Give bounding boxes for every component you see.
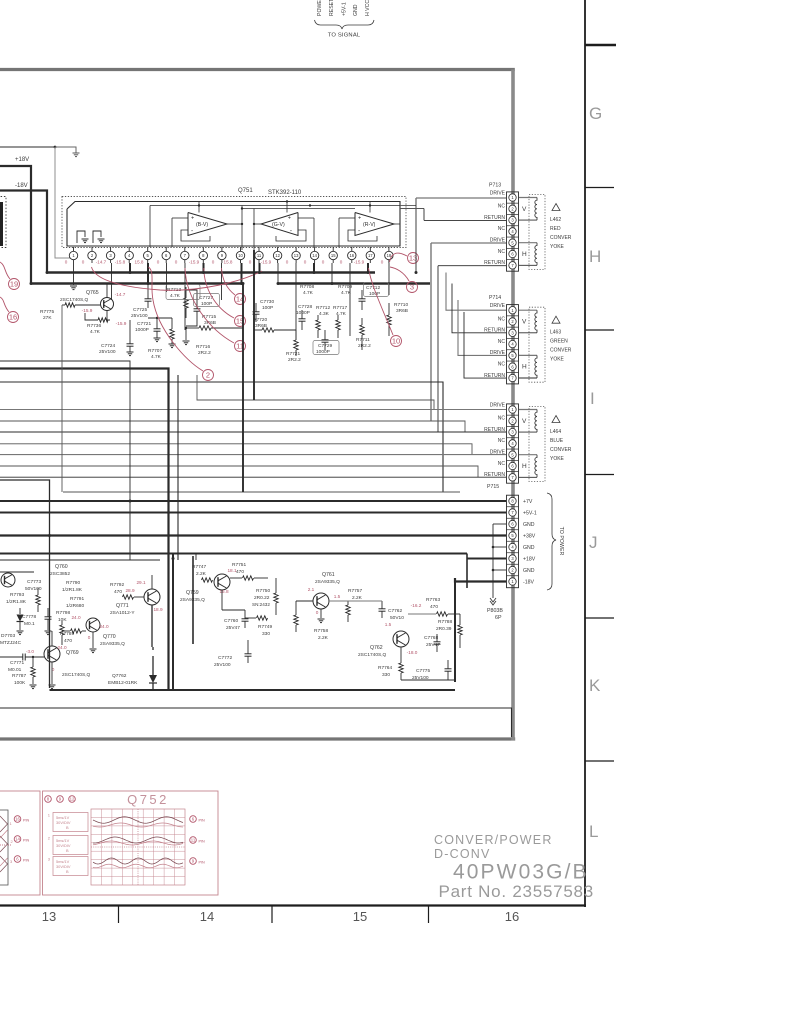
pin 16 of Q751 bbox=[351, 247, 353, 251]
svg-text:0: 0 bbox=[340, 260, 343, 265]
wire C7768 bbox=[436, 634, 438, 642]
svg-text:CONVER/POWER: CONVER/POWER bbox=[434, 833, 553, 847]
svg-text:R7763: R7763 bbox=[426, 597, 440, 603]
ground R7707 bbox=[169, 343, 176, 345]
wire thick drop left bbox=[0, 369, 169, 691]
wire mesh F bbox=[0, 361, 130, 560]
red ref 2 bbox=[203, 370, 214, 381]
wire R7717 bbox=[337, 315, 339, 320]
wire R7787 bbox=[32, 657, 34, 667]
svg-text:24.0: 24.0 bbox=[57, 645, 67, 650]
svg-text:DRIVE: DRIVE bbox=[490, 238, 506, 244]
wire B-V supply bbox=[198, 202, 200, 213]
wire R7713 bbox=[185, 287, 187, 298]
pin 18 of Q751 bbox=[388, 247, 390, 251]
svg-text:+5V-1: +5V-1 bbox=[523, 511, 537, 517]
svg-text:V: V bbox=[522, 206, 527, 213]
svg-text:24.0: 24.0 bbox=[99, 624, 109, 629]
wire C7729 bbox=[324, 330, 326, 340]
svg-text:GND: GND bbox=[523, 568, 535, 574]
wire R7764 bbox=[400, 647, 402, 663]
wire gray pin1 feed bbox=[55, 147, 70, 258]
connector P714 body bbox=[507, 305, 519, 384]
wire R7721 bbox=[295, 330, 297, 340]
wire mesh B bbox=[0, 421, 465, 432]
wire R-V supply bbox=[369, 202, 371, 213]
margin vertical line bbox=[584, 0, 586, 907]
svg-text:NC: NC bbox=[498, 226, 506, 232]
red curve 13 bbox=[390, 253, 408, 262]
margin tick bbox=[585, 187, 614, 189]
wire mesh C bbox=[0, 444, 472, 455]
wire base R7775 bbox=[62, 304, 65, 306]
wire corner left low bbox=[0, 480, 50, 688]
node bbox=[369, 204, 371, 206]
pin 17 of Q751 bbox=[369, 247, 371, 251]
wire +18V bbox=[0, 553, 467, 555]
wire mesh D bbox=[0, 466, 478, 477]
wire gnd chain bbox=[493, 523, 506, 525]
wire vertical x178 bbox=[177, 375, 179, 560]
wire vertical x173 bbox=[172, 553, 174, 690]
svg-text:R7720: R7720 bbox=[253, 317, 267, 323]
P713 pin 6 bbox=[507, 259, 519, 261]
bottom margin tick bbox=[428, 906, 430, 924]
red ref 19 bbox=[9, 279, 20, 290]
internal bias stub 1 bbox=[77, 231, 85, 243]
wire C7724 bbox=[129, 320, 131, 344]
wire pin6 drop bbox=[166, 263, 168, 292]
P715 pin 4 bbox=[507, 448, 519, 450]
power pin 3 +18V bbox=[507, 563, 519, 565]
svg-text:Q760: Q760 bbox=[55, 564, 68, 570]
svg-text:16: 16 bbox=[15, 817, 20, 822]
wire C7772 bbox=[247, 640, 249, 654]
wire vertical x467 bbox=[466, 554, 468, 589]
callout box C7729 bbox=[313, 341, 339, 355]
svg-text:14: 14 bbox=[200, 909, 214, 924]
svg-text:2.2K: 2.2K bbox=[318, 635, 329, 641]
svg-text:13: 13 bbox=[42, 909, 56, 924]
wire R7749 bbox=[245, 617, 256, 619]
svg-text:R7749: R7749 bbox=[258, 624, 272, 630]
svg-text:PIN: PIN bbox=[23, 819, 29, 823]
svg-text:2R0.22: 2R0.22 bbox=[254, 595, 270, 601]
wire vertical x62 bbox=[61, 305, 63, 492]
svg-text:Q765: Q765 bbox=[86, 290, 99, 296]
svg-text:-: - bbox=[191, 228, 193, 235]
transistor Q771 bbox=[144, 589, 160, 605]
svg-text:M0.1: M0.1 bbox=[24, 621, 35, 627]
wire P714 drive V bbox=[446, 273, 506, 311]
P715 pin 2 bbox=[507, 425, 519, 427]
svg-text:CONVER: CONVER bbox=[550, 447, 572, 453]
svg-text:H: H bbox=[522, 251, 527, 258]
svg-text:12: 12 bbox=[70, 797, 75, 802]
wire pin18 drop bbox=[388, 263, 390, 295]
wire emitter bbox=[107, 311, 110, 321]
svg-text:25V100: 25V100 bbox=[214, 662, 231, 668]
svg-text:24.0: 24.0 bbox=[71, 615, 81, 620]
waveform box Q752 outline bbox=[43, 791, 219, 895]
waveform trace 2 dark bbox=[93, 837, 183, 843]
power pin 6 GND bbox=[507, 529, 519, 531]
svg-text:-15.8: -15.8 bbox=[115, 260, 126, 265]
svg-text:P715: P715 bbox=[487, 484, 499, 490]
svg-text:YOKE: YOKE bbox=[550, 244, 565, 250]
red circled 12 bbox=[69, 796, 76, 803]
svg-text:3: 3 bbox=[410, 283, 414, 292]
red curve long pin2 bbox=[92, 267, 263, 290]
wire C7727 top bbox=[186, 290, 197, 309]
pin 1 of Q751 bbox=[73, 247, 75, 251]
wire return red H bbox=[437, 266, 439, 432]
P713 pin 2 bbox=[507, 213, 519, 215]
wire +38V bbox=[0, 534, 506, 536]
wire G-V plus input bbox=[298, 217, 314, 219]
svg-text:C7724: C7724 bbox=[101, 343, 115, 349]
svg-text:R7775: R7775 bbox=[40, 309, 54, 315]
svg-text:+: + bbox=[191, 216, 194, 222]
svg-text:R7708: R7708 bbox=[300, 284, 314, 290]
svg-text:2.1: 2.1 bbox=[308, 587, 315, 592]
margin tick bbox=[585, 760, 614, 762]
svg-text:NC: NC bbox=[498, 316, 506, 322]
svg-text:C7778: C7778 bbox=[22, 614, 36, 620]
wire P715 drive H bbox=[0, 454, 506, 456]
connector P715 body bbox=[507, 404, 519, 483]
svg-text:0: 0 bbox=[322, 260, 325, 265]
P713 pin 3 bbox=[507, 225, 519, 227]
pin ref 6 bbox=[190, 816, 197, 823]
IC Q751 body outline bbox=[67, 202, 400, 247]
wire pin9 drop bbox=[221, 263, 223, 300]
svg-text:2SC1740S,Q: 2SC1740S,Q bbox=[62, 672, 91, 678]
svg-text:2SA1012-Y: 2SA1012-Y bbox=[110, 610, 135, 616]
svg-text:R7793: R7793 bbox=[10, 592, 24, 598]
bottom margin tick bbox=[271, 906, 273, 924]
bottom margin line bbox=[0, 904, 586, 906]
P714 pin 1 bbox=[507, 315, 519, 317]
ground Q770 bbox=[90, 648, 97, 650]
svg-text:0: 0 bbox=[65, 260, 68, 265]
svg-text:4.7K: 4.7K bbox=[90, 329, 101, 335]
wire R7707 bbox=[171, 318, 173, 329]
svg-text:Q770: Q770 bbox=[103, 634, 116, 640]
svg-text:2R0.39: 2R0.39 bbox=[436, 626, 452, 632]
waveform box left outline bbox=[0, 791, 40, 895]
wire pin15 drop bbox=[331, 263, 333, 284]
wire R7715 bbox=[186, 327, 199, 329]
wire vertical x193 bbox=[192, 556, 194, 644]
H coil bbox=[519, 242, 537, 244]
svg-text:L462: L462 bbox=[550, 217, 561, 223]
svg-text:R7747: R7747 bbox=[192, 564, 206, 570]
svg-text:K: K bbox=[589, 676, 601, 695]
internal rail 2 bbox=[242, 208, 355, 210]
svg-text:C7771: C7771 bbox=[10, 660, 24, 666]
svg-text:100K: 100K bbox=[14, 680, 26, 686]
wire P715 return V bbox=[0, 431, 506, 433]
yoke dashed box P715 bbox=[529, 407, 545, 482]
brace TO SIGNAL bbox=[315, 20, 375, 29]
svg-text:NC: NC bbox=[498, 461, 506, 467]
svg-text:+38V: +38V bbox=[523, 534, 536, 540]
red ref 16 bbox=[8, 312, 19, 323]
P713 pin 1 bbox=[507, 202, 519, 204]
svg-text:L: L bbox=[589, 822, 598, 841]
wire R7763 bbox=[408, 613, 436, 615]
scope setting box 1 bbox=[53, 813, 88, 832]
svg-text:V: V bbox=[522, 418, 527, 425]
svg-text:M0.01: M0.01 bbox=[8, 667, 22, 673]
ground internal 1 bbox=[82, 238, 89, 240]
svg-text:3R6B: 3R6B bbox=[255, 323, 267, 329]
svg-text:2.2K: 2.2K bbox=[196, 571, 207, 577]
P715 pin 1 bbox=[507, 414, 519, 416]
P714 pin 7 bbox=[509, 374, 516, 381]
wire R-V output bbox=[394, 223, 400, 225]
junction node bbox=[54, 146, 57, 149]
wire x155 joins x168 bbox=[152, 647, 154, 650]
svg-text:4.7K: 4.7K bbox=[170, 293, 181, 299]
op-amp U1b (G-V) bbox=[261, 213, 298, 236]
svg-text:-15.9: -15.9 bbox=[189, 260, 200, 265]
P713 pin 4 bbox=[507, 236, 519, 238]
svg-text:3R6B: 3R6B bbox=[204, 320, 216, 326]
svg-text:PIN: PIN bbox=[199, 840, 205, 844]
svg-text:P803B: P803B bbox=[487, 608, 503, 614]
transistor Q769 bbox=[44, 646, 60, 662]
svg-text:15.8: 15.8 bbox=[224, 260, 233, 265]
svg-text:2R2.2: 2R2.2 bbox=[358, 343, 371, 349]
pin 2 of Q751 bbox=[91, 247, 93, 251]
svg-text:GREEN: GREEN bbox=[550, 339, 568, 345]
svg-text:30V/DIV: 30V/DIV bbox=[56, 843, 71, 848]
node output bbox=[253, 223, 255, 225]
svg-text:+18V: +18V bbox=[15, 157, 29, 163]
pin 7 of Q751 bbox=[184, 247, 186, 251]
wire C7778 bbox=[47, 608, 49, 617]
svg-text:1000P: 1000P bbox=[316, 349, 330, 355]
svg-text:POWER-ON: POWER-ON bbox=[317, 0, 323, 16]
wire pin3 drop bbox=[111, 263, 113, 300]
svg-text:Q762: Q762 bbox=[370, 645, 383, 651]
wire vertical x254 bbox=[253, 250, 255, 400]
svg-text:4.3K: 4.3K bbox=[319, 311, 330, 317]
svg-text:470: 470 bbox=[114, 589, 122, 595]
svg-text:B: B bbox=[66, 848, 69, 853]
svg-text:R7758: R7758 bbox=[314, 628, 328, 634]
svg-text:1/2R1.8K: 1/2R1.8K bbox=[6, 599, 27, 605]
power pin 1 -18V bbox=[509, 578, 516, 585]
wire C7771 bbox=[0, 656, 23, 658]
svg-text:D7703: D7703 bbox=[1, 633, 15, 639]
svg-text:330: 330 bbox=[382, 672, 390, 678]
wire Q761 base bbox=[296, 600, 313, 602]
svg-text:1000P: 1000P bbox=[135, 327, 149, 333]
svg-text:0: 0 bbox=[212, 260, 215, 265]
wire pin1 to ground bbox=[73, 263, 75, 285]
wire Q759 emitter bbox=[221, 590, 223, 610]
svg-text:17: 17 bbox=[368, 253, 373, 258]
svg-text:+5V-1: +5V-1 bbox=[342, 2, 348, 16]
wire R7751 bbox=[230, 577, 242, 579]
pin 9 of Q751 bbox=[221, 247, 223, 251]
wire -18V rail bbox=[0, 191, 47, 273]
svg-text:11: 11 bbox=[191, 838, 196, 843]
P715 pin 6 bbox=[507, 471, 519, 473]
svg-text:Q752: Q752 bbox=[127, 792, 169, 807]
ground internal 2 bbox=[98, 238, 105, 240]
IC Q751 dashed outline bbox=[62, 197, 406, 248]
svg-text:-15.9: -15.9 bbox=[82, 308, 93, 313]
svg-text:R7717: R7717 bbox=[333, 305, 347, 311]
wire mid-low b bbox=[0, 571, 34, 573]
ground R7716 bbox=[183, 340, 190, 342]
red curve 15 bbox=[204, 268, 234, 318]
wire G-V output vertical bbox=[253, 209, 255, 251]
svg-text:RED: RED bbox=[550, 226, 561, 232]
node bbox=[286, 200, 288, 202]
wire pin11 drop bbox=[259, 263, 261, 273]
red ref 3 bbox=[407, 282, 418, 293]
svg-text:50V10: 50V10 bbox=[390, 615, 404, 621]
wire R-V input vertical bbox=[338, 218, 340, 247]
svg-text:STK392-110: STK392-110 bbox=[268, 190, 302, 196]
svg-text:25V100: 25V100 bbox=[99, 349, 116, 355]
wire G-V output bbox=[254, 223, 261, 225]
svg-text:29.1: 29.1 bbox=[136, 580, 146, 585]
wire node y318 bbox=[148, 317, 172, 319]
bottom margin tick bbox=[118, 906, 120, 924]
svg-text:+18V: +18V bbox=[523, 557, 536, 563]
pin 5 of Q751 bbox=[147, 247, 149, 251]
svg-text:6P: 6P bbox=[495, 615, 502, 621]
svg-text:NC: NC bbox=[498, 416, 506, 422]
wire drive red V bbox=[400, 205, 416, 207]
wire Q771 base bbox=[134, 596, 144, 598]
svg-text:Part No. 23557583: Part No. 23557583 bbox=[439, 882, 594, 901]
svg-text:14: 14 bbox=[312, 253, 317, 258]
pin ref 9 bbox=[190, 858, 197, 865]
transistor Q761 bbox=[313, 593, 329, 609]
svg-text:EMB12-01RK: EMB12-01RK bbox=[108, 680, 138, 686]
wire R7716 strap bbox=[185, 328, 187, 340]
yoke dashed box P713 bbox=[529, 195, 545, 270]
red curve 10 bbox=[369, 268, 394, 335]
svg-text:-15.9: -15.9 bbox=[116, 321, 127, 326]
P715 pin 7 bbox=[509, 474, 516, 481]
svg-text:R7798: R7798 bbox=[56, 610, 70, 616]
svg-text:R7764: R7764 bbox=[378, 665, 392, 671]
svg-text:C7772: C7772 bbox=[218, 655, 232, 661]
svg-text:-18V: -18V bbox=[15, 183, 28, 189]
wire R7720 bbox=[254, 329, 262, 331]
wire P715 drive V bbox=[0, 409, 506, 411]
svg-text:-14.7: -14.7 bbox=[115, 292, 126, 297]
wire C7775 bbox=[447, 660, 449, 669]
wire +7V bbox=[0, 500, 506, 502]
red ref 15 bbox=[235, 316, 246, 327]
svg-text:R7787: R7787 bbox=[12, 673, 26, 679]
svg-text:H: H bbox=[522, 364, 527, 371]
brace TO POWER bbox=[547, 493, 556, 590]
wire B-V input vertical bbox=[171, 218, 173, 247]
svg-text:0: 0 bbox=[88, 635, 91, 640]
svg-text:RETURN: RETURN bbox=[484, 215, 505, 221]
svg-text:C7762: C7762 bbox=[388, 608, 402, 614]
svg-text:3R6B: 3R6B bbox=[396, 308, 408, 314]
P714 pin 3 bbox=[507, 337, 519, 339]
svg-text:2SA9335,Q: 2SA9335,Q bbox=[100, 641, 125, 647]
svg-text:RETURN: RETURN bbox=[484, 260, 505, 266]
wire C7760 bbox=[244, 610, 246, 619]
svg-text:100P: 100P bbox=[262, 305, 273, 311]
wire R7757 bbox=[347, 601, 349, 605]
svg-text:-15.9: -15.9 bbox=[261, 260, 272, 265]
svg-text:RESET: RESET bbox=[329, 0, 335, 16]
svg-text:DRIVE: DRIVE bbox=[490, 402, 506, 408]
svg-text:30V/DIV: 30V/DIV bbox=[56, 820, 71, 825]
transistor Q765 bbox=[101, 298, 114, 311]
wire q759 top bbox=[195, 553, 197, 560]
wire Q759 net bbox=[222, 609, 245, 611]
wire Q771 collector bbox=[151, 575, 153, 589]
H coil bbox=[519, 454, 537, 456]
svg-text:11: 11 bbox=[257, 253, 262, 258]
svg-text:C7730: C7730 bbox=[260, 299, 274, 305]
svg-text:J: J bbox=[589, 533, 598, 552]
svg-text:2SA9335,Q: 2SA9335,Q bbox=[315, 579, 340, 585]
transistor Q759 bbox=[214, 574, 230, 590]
power pin 8 +7V bbox=[507, 506, 519, 508]
wire pin10 drop bbox=[241, 263, 243, 284]
pin 12 of Q751 bbox=[277, 247, 279, 251]
IC left cut-off dashed box bbox=[0, 197, 6, 248]
scope grid center crosshair bbox=[137, 809, 139, 885]
red curve 3 bbox=[390, 267, 409, 281]
svg-text:-18V: -18V bbox=[523, 580, 534, 586]
internal supply rail bbox=[150, 205, 400, 207]
wire pin7 drop bbox=[184, 263, 186, 330]
bus segment right bbox=[278, 282, 430, 284]
svg-text:+7V: +7V bbox=[523, 499, 533, 505]
svg-text:-: - bbox=[290, 228, 292, 235]
wire B-V output bbox=[227, 223, 242, 225]
pin ref 11 bbox=[190, 837, 197, 844]
svg-text:Q771: Q771 bbox=[116, 603, 129, 609]
svg-text:L463: L463 bbox=[550, 330, 561, 336]
svg-text:R7792: R7792 bbox=[110, 582, 124, 588]
left pin ref 16 bbox=[14, 816, 21, 823]
svg-text:-14.7: -14.7 bbox=[96, 260, 107, 265]
power pin 7 +5V-1 bbox=[507, 517, 519, 519]
svg-text:CONVER: CONVER bbox=[550, 235, 572, 241]
wire R7710 bbox=[388, 303, 390, 315]
red ref 11 bbox=[235, 341, 246, 352]
svg-text:25V47: 25V47 bbox=[226, 625, 240, 631]
svg-text:D-CONV: D-CONV bbox=[434, 847, 491, 861]
svg-text:13: 13 bbox=[294, 253, 299, 258]
svg-text:2.2K: 2.2K bbox=[352, 595, 363, 601]
wire mid-low a bbox=[0, 559, 160, 561]
svg-text:0: 0 bbox=[381, 260, 384, 265]
svg-text:19: 19 bbox=[10, 280, 18, 289]
svg-text:R7709: R7709 bbox=[338, 284, 352, 290]
wire pin16 drop bbox=[349, 263, 351, 336]
red circled 9 bbox=[57, 796, 64, 803]
